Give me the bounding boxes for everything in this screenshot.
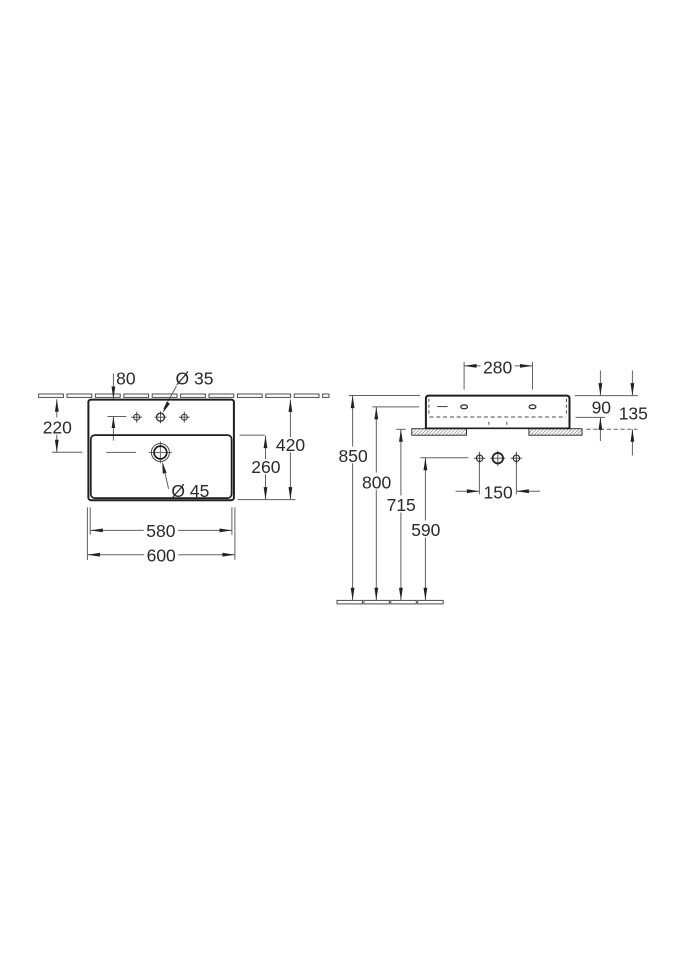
svg-text:80: 80	[116, 369, 136, 389]
svg-text:715: 715	[387, 495, 416, 515]
svg-text:Ø 35: Ø 35	[176, 369, 214, 389]
svg-text:600: 600	[147, 545, 176, 565]
svg-text:90: 90	[592, 398, 612, 418]
svg-text:Ø 45: Ø 45	[171, 481, 209, 501]
svg-text:590: 590	[411, 520, 440, 540]
svg-text:135: 135	[619, 403, 648, 423]
svg-text:580: 580	[146, 521, 175, 541]
svg-text:220: 220	[43, 417, 72, 437]
svg-text:280: 280	[483, 357, 512, 377]
svg-text:150: 150	[483, 482, 512, 502]
svg-text:850: 850	[338, 446, 367, 466]
svg-text:800: 800	[362, 472, 391, 492]
svg-text:420: 420	[276, 435, 305, 455]
svg-text:260: 260	[251, 457, 280, 477]
